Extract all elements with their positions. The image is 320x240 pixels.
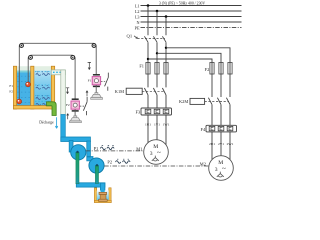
svg-text:~: ~	[222, 165, 226, 173]
float switch S2 motion arrow upper	[66, 88, 69, 94]
svg-text:2W1: 2W1	[227, 142, 234, 146]
float switch S2 motion arrow lower	[67, 114, 69, 120]
wire phase2 drop to Q1	[156, 11, 158, 35]
pulley inner left	[29, 56, 33, 60]
pipe bypass down to P2	[87, 141, 93, 161]
svg-text:2U1: 2U1	[209, 142, 215, 146]
wire L3 bus	[141, 16, 242, 18]
well tank bottom	[94, 200, 111, 202]
contactor K1M contact 1 blade	[144, 88, 148, 95]
pipe tank outlet stub pale	[51, 70, 65, 75]
overload relay F4 element 1	[209, 126, 215, 130]
svg-text:F1: F1	[88, 78, 92, 82]
contactor K2M linkage dashed	[205, 100, 229, 102]
svg-text:1V1: 1V1	[154, 123, 160, 127]
wire phase1 K2M to F4	[211, 105, 213, 126]
svg-text:Q1: Q1	[127, 34, 133, 39]
wire phase2 K1M to F3	[156, 95, 158, 108]
wire branch phase1 to M2 circuit	[148, 59, 212, 63]
svg-text:L1: L1	[135, 3, 140, 8]
fuse F1c	[164, 63, 168, 75]
float switch S1 box	[92, 77, 100, 85]
svg-text:K2M: K2M	[179, 99, 188, 104]
pipe green stub under P1	[76, 152, 79, 184]
contact S1 blade symbol	[105, 73, 109, 91]
wire phase1 F3 to M1	[147, 115, 149, 143]
pipe drop into well	[100, 183, 105, 193]
wire fuse F2 links	[212, 63, 230, 75]
tank pale top band	[17, 66, 31, 70]
overload relay F4 element 3	[227, 126, 233, 130]
overload relay F3 box	[141, 108, 172, 115]
pipe main down pale upper	[61, 70, 66, 115]
wire phase3 F3 to M1	[165, 115, 167, 145]
well tank water	[97, 191, 109, 201]
float switch S2 roller	[73, 103, 77, 107]
cable S1 to weight	[95, 85, 97, 93]
switch Q1 linkage dashed	[137, 38, 165, 40]
pipe main down cyan lower	[61, 115, 66, 142]
wire phase3 fuse to K1M	[165, 74, 167, 87]
tank right level dashed lines	[35, 72, 51, 102]
svg-text:F4: F4	[201, 127, 206, 132]
svg-text:F1: F1	[9, 84, 13, 88]
wire PE bus dash-dot	[141, 26, 242, 28]
motor M2 circle	[209, 156, 234, 181]
contact S2 linkage dashed	[80, 105, 84, 107]
counterweight W2	[70, 116, 82, 123]
tank left water dash rows	[17, 76, 30, 103]
well pipe inside	[101, 190, 105, 193]
overload relay F4 box	[206, 125, 237, 132]
counterweight W1	[91, 93, 103, 100]
overload relay F4 element 2	[218, 126, 224, 130]
svg-text:2V1: 2V1	[218, 142, 224, 146]
node junction branch tap phase2	[156, 52, 158, 54]
contactor K2M contact 3 blade	[226, 98, 230, 105]
svg-text:F2: F2	[9, 90, 13, 94]
pump P1 shaft dot	[76, 151, 78, 153]
svg-text:P2: P2	[107, 159, 112, 164]
motor M1 circle	[144, 140, 169, 165]
svg-text:K1M: K1M	[115, 89, 124, 94]
tank level note 2	[36, 86, 50, 90]
fuse F1b	[155, 63, 159, 75]
pulley outer right	[92, 44, 96, 48]
wire phase3 K2M to F4	[229, 105, 231, 126]
float switch S1 stop tick upper	[93, 74, 100, 76]
float switch S1 stop tick lower	[93, 85, 100, 87]
tank wall right	[51, 66, 54, 109]
foot valve top ring	[99, 192, 107, 194]
contactor K2M contact 1 blade	[208, 98, 212, 105]
wire phase3 K1M to F3	[165, 95, 167, 108]
wire branch phase3 to M2 circuit	[166, 48, 230, 63]
wire phase1 K1M to F3	[147, 95, 149, 108]
wire branch phase2 to M2 circuit	[157, 53, 221, 62]
svg-text:F2: F2	[66, 103, 70, 107]
cable float B to outer pulley run	[19, 43, 96, 101]
wire N bus	[141, 21, 242, 23]
switch Q1 actuator arrow	[134, 36, 137, 39]
wire phase2 fuse to K2M	[220, 74, 222, 97]
tank level note 1	[36, 72, 50, 76]
wire L2 bus	[141, 10, 242, 12]
motor M2 frame symbol	[217, 172, 224, 177]
overload relay F3 element 1	[145, 109, 151, 113]
pipe bottom horizontal	[76, 183, 105, 187]
svg-text:P1: P1	[94, 146, 99, 151]
wire phase1 F4 to M2	[211, 132, 213, 160]
drain flow arrow	[55, 117, 57, 128]
motor M1 frame symbol	[152, 156, 159, 161]
float B ball	[17, 99, 22, 104]
contact S2 blade symbol	[83, 97, 87, 115]
pump P1 circle	[71, 145, 86, 160]
cable float A to inner pulley run	[28, 55, 75, 99]
wire phase1 fuse to K1M	[147, 74, 149, 87]
contactor K1M contact 3 blade	[162, 88, 166, 95]
svg-text:1U1: 1U1	[145, 123, 151, 127]
contactor K1M coil	[126, 88, 142, 94]
svg-text:1W1: 1W1	[163, 123, 170, 127]
float switch S1 motion arrow upper	[88, 62, 91, 69]
svg-text:N: N	[136, 20, 139, 25]
pulley outer left	[20, 44, 24, 48]
fuse F2a	[210, 63, 214, 75]
svg-text:Décharge: Décharge	[39, 121, 54, 125]
fuse F2c	[228, 63, 232, 75]
pulley inner right	[71, 56, 75, 60]
svg-text:3 (N) (PE) ~ 50Hz 400 / 230V: 3 (N) (PE) ~ 50Hz 400 / 230V	[159, 1, 205, 5]
svg-text:F2: F2	[205, 67, 210, 72]
float switch S2 box	[71, 101, 79, 109]
fuse F2b	[219, 63, 223, 75]
contactor K2M contact 2 blade	[217, 98, 221, 105]
tank bottom	[13, 106, 54, 109]
node junction L3 tap	[165, 15, 168, 18]
wire phase2 K2M to F4	[220, 105, 222, 126]
pipe green stub under P2	[95, 166, 98, 184]
pump P2 circle	[89, 158, 104, 173]
float switch S1 roller	[94, 79, 98, 83]
wire phase1 fuse to K2M	[211, 74, 213, 97]
switch Q1 pole 2 blade	[153, 36, 157, 42]
fuse F1a	[146, 63, 150, 75]
node junction L2 tap	[156, 10, 159, 13]
cable S2 to weight	[74, 109, 76, 116]
pump P1 arabic note	[100, 147, 114, 150]
pump P2 shaft dot	[96, 164, 98, 166]
svg-text:3: 3	[150, 151, 153, 157]
pipe horizontal feed to pumps	[61, 137, 91, 142]
tank level note 3	[36, 96, 50, 100]
overload relay F3 element 3	[163, 109, 169, 113]
switch Q1 pole 3 blade	[162, 36, 166, 42]
float A ball	[26, 82, 31, 87]
contact S1 linkage dashed	[101, 81, 105, 83]
wire phase3 Q1 to fuse	[165, 42, 167, 62]
contactor K1M contact 2 blade	[153, 88, 157, 95]
water dashes in outlet stub	[53, 71, 62, 73]
wire phase3 drop to Q1	[165, 17, 167, 36]
float switch S2 stop tick lower	[72, 110, 79, 112]
tank right compartment empty top	[34, 66, 51, 70]
coupling P2-M2 dash-dot overlay	[104, 165, 208, 167]
foot valve bottom flange	[99, 199, 108, 201]
svg-text:L3: L3	[135, 14, 140, 19]
svg-text:3: 3	[215, 167, 218, 173]
green drain pipe from tank	[47, 102, 57, 116]
wire fuse F1 links	[148, 63, 166, 75]
well tank wall right	[109, 188, 111, 203]
wire phase3 F4 to M2	[229, 132, 231, 160]
svg-text:L2: L2	[135, 9, 140, 14]
float switch S2 stop tick upper	[72, 98, 79, 100]
float switch S1 motion arrow lower	[86, 91, 88, 97]
wire L1 bus	[141, 5, 242, 7]
tank left compartment water	[17, 71, 31, 106]
wire phase2 F4 to M2	[220, 132, 222, 156]
pump P2 arabic note	[116, 161, 131, 164]
wire phase1 Q1 to fuse	[147, 42, 149, 62]
contactor K1M linkage dashed	[142, 90, 165, 92]
overload relay F3 element 2	[154, 109, 160, 113]
svg-text:F1: F1	[139, 64, 144, 69]
tank wall left	[13, 66, 16, 109]
tank level note 4	[36, 103, 50, 105]
foot valve body	[100, 195, 106, 200]
wire phase3 fuse to K2M	[229, 74, 231, 97]
coupling P1-M1 dash-dot overlay	[86, 150, 144, 152]
node junction branch tap phase3	[165, 47, 167, 49]
tank wall partition	[31, 66, 34, 109]
svg-text:~: ~	[157, 149, 161, 157]
node junction branch tap phase1	[147, 58, 149, 60]
wire phase1 drop to Q1	[147, 6, 149, 36]
tank water surface teal strip	[17, 71, 31, 73]
well tank wall left	[94, 188, 96, 203]
tank right compartment water	[34, 71, 51, 106]
switch Q1 pole 1 blade	[144, 36, 148, 42]
contactor K2M coil	[190, 98, 205, 104]
wire phase2 fuse to K1M	[156, 74, 158, 87]
pipe branch into P1	[69, 141, 73, 153]
svg-text:PE: PE	[135, 25, 140, 30]
node junction L1 tap	[147, 4, 150, 7]
wire phase2 F3 to M1	[156, 115, 158, 140]
wire phase2 Q1 to fuse	[156, 42, 158, 62]
svg-text:F3: F3	[136, 110, 141, 115]
